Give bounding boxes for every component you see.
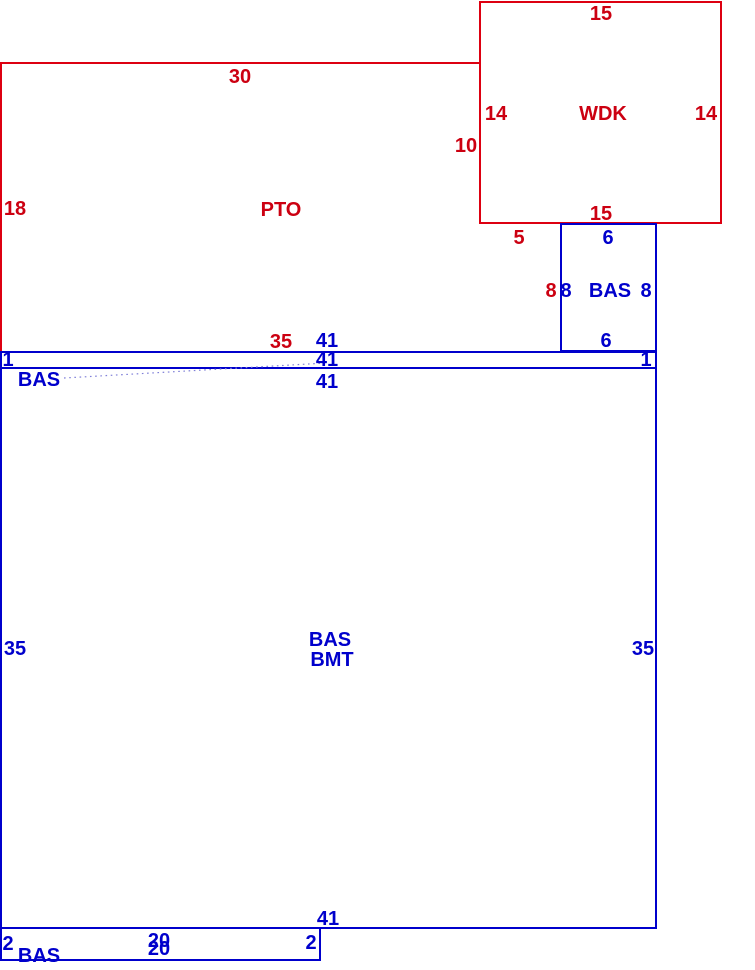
svg-text:41: 41 — [317, 908, 339, 930]
wire: PTO top edge — [0, 62, 480, 64]
svg-text:BAS: BAS — [18, 945, 60, 967]
area BAS strip (41x1) outline — [1, 352, 656, 368]
svg-text:PTO: PTO — [261, 199, 302, 221]
area BAS small box (6x8) outline — [561, 224, 656, 351]
svg-text:8: 8 — [640, 280, 651, 302]
svg-text:8: 8 — [545, 280, 556, 302]
wire: PTO left edge — [0, 62, 2, 352]
svg-text:18: 18 — [4, 198, 26, 220]
svg-text:BAS: BAS — [589, 280, 631, 302]
svg-text:20: 20 — [148, 938, 170, 960]
leader dotted line from BAS label to strip — [64, 363, 326, 378]
area BAS bottom box (20x2) outline — [1, 928, 320, 960]
svg-text:6: 6 — [600, 330, 611, 352]
svg-text:WDK: WDK — [579, 103, 627, 125]
svg-text:41: 41 — [316, 371, 338, 393]
svg-text:10: 10 — [455, 135, 477, 157]
svg-text:BMT: BMT — [310, 649, 353, 671]
svg-text:30: 30 — [229, 66, 251, 88]
svg-text:2: 2 — [305, 932, 316, 954]
svg-text:BAS: BAS — [18, 369, 60, 391]
area WDK (wood deck) outline — [480, 2, 721, 223]
svg-text:1: 1 — [640, 349, 651, 371]
svg-text:5: 5 — [513, 227, 524, 249]
svg-text:14: 14 — [485, 103, 508, 125]
svg-text:1: 1 — [2, 349, 13, 371]
svg-text:8: 8 — [560, 280, 571, 302]
svg-text:15: 15 — [590, 3, 612, 25]
svg-text:BAS: BAS — [309, 629, 351, 651]
svg-text:35: 35 — [270, 331, 292, 353]
svg-text:35: 35 — [4, 638, 26, 660]
svg-text:14: 14 — [695, 103, 718, 125]
svg-text:2: 2 — [2, 933, 13, 955]
svg-text:35: 35 — [632, 638, 654, 660]
area BAS/BMT main box (41x35) outline — [1, 368, 656, 928]
svg-text:41: 41 — [316, 349, 338, 371]
svg-text:15: 15 — [590, 203, 612, 225]
svg-text:6: 6 — [602, 227, 613, 249]
